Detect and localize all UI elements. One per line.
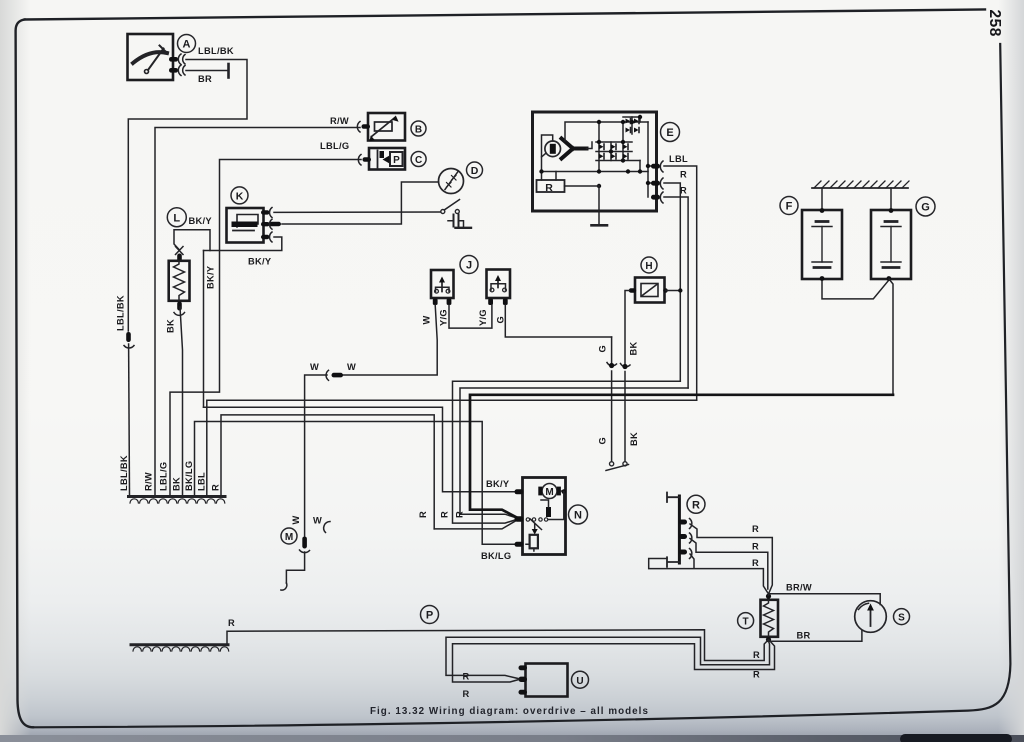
wire from D to K terminal 2 [282, 182, 439, 224]
kickdown switch contacts [606, 462, 629, 471]
wire R from E terminal 3 down to bus [664, 197, 688, 388]
svg-text:BK/Y: BK/Y [486, 479, 510, 489]
svg-text:LBL/BK: LBL/BK [198, 46, 234, 56]
terminals of H [629, 288, 668, 293]
wire BK from L to connector strip [180, 307, 183, 495]
terminals of E (LBL, R, R) [651, 161, 663, 203]
inline connector on D-K wire [268, 222, 281, 226]
ignition switch contacts below D [441, 200, 460, 214]
capacitor to ground at D [448, 215, 464, 228]
svg-text:G: G [496, 316, 506, 324]
circle label B [411, 121, 426, 136]
svg-text:BK/Y: BK/Y [248, 257, 272, 267]
wire battery F negative to battery G negative [820, 276, 892, 299]
svg-text:A: A [183, 39, 191, 51]
svg-text:D: D [471, 165, 479, 177]
circle label U [572, 671, 589, 688]
svg-text:P: P [393, 155, 400, 166]
svg-text:LBL/G: LBL/G [320, 141, 349, 151]
svg-text:Fig. 13.32 Wiring diagram: ove: Fig. 13.32 Wiring diagram: overdrive – a… [370, 706, 649, 717]
bold battery feed wire to N pin 2 [470, 395, 893, 518]
svg-text:BK: BK [172, 477, 182, 491]
circle label D [467, 162, 483, 178]
wire BK/LG from strip up and across to N [195, 422, 518, 545]
svg-text:K: K [236, 190, 244, 202]
motor M inside N [538, 484, 566, 520]
terminals of K [261, 208, 272, 243]
wire R pin3 to resistor T [649, 554, 769, 594]
circle label E [661, 123, 680, 142]
svg-text:N: N [574, 510, 582, 522]
svg-text:R/W: R/W [144, 472, 154, 491]
wire R/W from B down to connector strip [155, 128, 360, 496]
terminal pins of U [519, 665, 528, 694]
circle label H [641, 257, 657, 273]
node at T bottom [766, 637, 771, 642]
svg-text:R: R [228, 618, 235, 628]
svg-text:G: G [921, 202, 930, 214]
svg-text:H: H [645, 261, 652, 272]
wire R from strip bus into N pin 2 [434, 520, 517, 529]
wire R pin1 to resistor T [690, 524, 772, 594]
alternator E stator windings [562, 139, 587, 159]
terminal pins of N [515, 489, 524, 547]
wire battery F to ground hatch [820, 188, 825, 213]
inline connector on LBL/BK wire [124, 332, 134, 348]
ground strip bottom left [131, 645, 229, 651]
circle label K [231, 187, 248, 204]
wire BR from T to gauge S [769, 631, 862, 642]
svg-text:R: R [692, 499, 700, 511]
wire from K terminal 1 to ignition contacts [274, 211, 441, 213]
connector R (3-pin) [667, 493, 679, 567]
svg-text:W: W [422, 315, 432, 324]
svg-text:W: W [313, 516, 322, 526]
svg-text:U: U [576, 676, 583, 687]
svg-text:G: G [598, 345, 608, 353]
svg-text:M: M [545, 487, 553, 498]
svg-text:R: R [455, 511, 465, 518]
svg-text:BK/LG: BK/LG [481, 551, 511, 561]
svg-text:Y/G: Y/G [478, 309, 488, 326]
svg-text:W: W [291, 515, 301, 524]
svg-text:R: R [752, 524, 759, 534]
svg-text:BK: BK [166, 319, 176, 333]
wire G from J2 to drop [505, 305, 611, 337]
svg-text:R: R [211, 484, 221, 491]
battery G (box) [871, 210, 911, 279]
wire loop K terminal 3 to L resistor and BK/Y drop [174, 230, 282, 251]
inline connector on G wire [607, 363, 617, 369]
resistor T (box with zigzag) [761, 600, 779, 637]
relay K (box) [227, 208, 264, 243]
wire battery G to ground hatch [889, 188, 894, 213]
svg-text:R: R [752, 558, 759, 568]
wire R into U (loop 2) [453, 641, 775, 683]
svg-text:W: W [310, 362, 319, 372]
svg-text:LBL: LBL [669, 154, 688, 164]
wire Y/G linking J1 and J2 [449, 305, 492, 328]
solenoid valve unit U (box) [526, 664, 568, 697]
meter A (gauge box) [128, 34, 174, 80]
connector X on resistor L lead [176, 247, 184, 262]
wire LBL/BK from meter A down to connector strip [128, 60, 247, 332]
alternator E regulator box with R [537, 172, 600, 195]
oil pressure gauge S [855, 601, 887, 633]
circle label C [411, 152, 426, 167]
svg-text:P: P [426, 610, 433, 622]
svg-text:L: L [173, 212, 180, 224]
wire R into U (loop 1) [446, 637, 770, 678]
svg-text:LBL/G: LBL/G [159, 462, 169, 491]
relay J2 (box) [487, 270, 511, 299]
relay J1 (box) [431, 270, 454, 298]
fuse H (box) [635, 278, 665, 303]
svg-text:R: R [753, 650, 760, 660]
terminal of C [358, 155, 371, 166]
svg-text:R: R [752, 542, 759, 552]
svg-text:R: R [463, 672, 470, 682]
svg-text:M: M [285, 532, 293, 543]
dark scanner band at bottom [0, 735, 1024, 742]
circle label N [569, 505, 588, 524]
wire R upper bus (E terminal 2 branch) [453, 381, 681, 523]
svg-text:F: F [786, 201, 793, 213]
wire H to R drop wire [666, 288, 683, 292]
svg-text:E: E [666, 127, 673, 139]
battery F (box) [802, 210, 842, 279]
circle label F [780, 197, 798, 215]
svg-text:J: J [466, 260, 472, 272]
wire BK/Y (vertical drop to harness bus) [203, 251, 205, 408]
terminal of B [357, 122, 370, 133]
wire BR with terminator [186, 64, 229, 78]
ground below alternator E [592, 186, 608, 225]
overdrive unit N (box) [523, 478, 566, 555]
circle label S [894, 609, 910, 625]
svg-text:BR: BR [198, 74, 212, 84]
svg-text:R: R [680, 170, 687, 180]
resistance unit B (box with rheostat) [368, 113, 405, 142]
switch M assembly [281, 522, 330, 591]
svg-text:C: C [415, 155, 422, 166]
wire R pin2 to resistor T [690, 539, 768, 590]
circle label A [178, 35, 196, 53]
svg-text:T: T [743, 617, 749, 628]
svg-text:R/W: R/W [330, 116, 349, 126]
svg-text:G: G [598, 437, 608, 445]
wire R from strip to bus [221, 415, 434, 529]
wire BR/W from T to gauge S [769, 594, 881, 605]
circle label R [687, 495, 705, 513]
wire R from E terminal 2 down to bus [664, 183, 680, 381]
wire R middle bus (E terminal 3 branch) [460, 388, 688, 518]
svg-text:258: 258 [986, 10, 1003, 37]
svg-text:R: R [680, 186, 687, 196]
svg-text:BR/W: BR/W [786, 583, 812, 593]
inline connector on BK wire [621, 364, 631, 370]
ballast resistor L [169, 261, 190, 301]
svg-text:Y/G: Y/G [439, 309, 449, 326]
wire battery G down to bold feed [889, 279, 893, 395]
alternator E internal wiring [542, 117, 654, 197]
svg-text:BK/Y: BK/Y [206, 265, 216, 289]
terminal below L [174, 302, 185, 316]
long wire R (P circuit) from ground strip to T [227, 630, 768, 661]
svg-text:BK: BK [629, 432, 639, 446]
inline connector on W wire [326, 370, 343, 380]
solenoid inside N [526, 524, 538, 552]
ground hatch above batteries [812, 181, 909, 188]
svg-text:BK/Y: BK/Y [189, 216, 213, 226]
switch contacts inside N [526, 500, 551, 530]
svg-text:LBL: LBL [197, 472, 207, 491]
circle label L [167, 208, 186, 227]
node at T top [766, 594, 771, 599]
svg-text:LBL/BK: LBL/BK [116, 295, 126, 331]
wire BK/Y across bus into N pin 1 [204, 407, 518, 492]
circle label J [460, 256, 478, 274]
wire G from relay J2 down to kickdown switch [611, 337, 613, 462]
inhibitor switch C (box with P) [369, 148, 405, 170]
ignition switch D [439, 169, 464, 194]
svg-text:R: R [753, 670, 760, 680]
svg-text:BR: BR [797, 631, 811, 641]
svg-text:R: R [463, 689, 470, 699]
svg-text:R: R [418, 511, 428, 518]
svg-text:BK: BK [629, 341, 639, 355]
circle label M [281, 528, 297, 544]
pins of connector R [679, 519, 692, 559]
wire W from J1 down to connector and M switch [305, 305, 438, 536]
wire LBL/G from C left, down at x219.5, to link and strip [170, 160, 361, 496]
wire LBL from E terminal 1 down to bus [664, 166, 697, 400]
circle label T [738, 613, 754, 629]
terminal pins of J relays [433, 299, 508, 306]
alternator E rotor circle [545, 141, 561, 157]
ground symbol at D [456, 227, 472, 229]
meter A terminals [169, 54, 185, 76]
svg-text:W: W [347, 362, 356, 372]
alternator E (box) [533, 112, 657, 211]
wire BK from H down to kickdown switch [625, 291, 630, 462]
circle label G [916, 197, 935, 216]
svg-text:S: S [898, 613, 905, 624]
alternator E junction dots [539, 115, 650, 188]
svg-text:R: R [440, 511, 450, 518]
svg-text:R: R [545, 182, 553, 194]
wire LBL from strip across to alternator E [207, 400, 697, 495]
alternator E diodes [599, 119, 639, 160]
dark blob bottom right [900, 734, 1012, 742]
circle label P [421, 606, 439, 624]
svg-text:B: B [415, 124, 422, 135]
connector strip upper left (harness ground) [129, 497, 226, 504]
svg-text:BK/LG: BK/LG [184, 461, 194, 491]
svg-text:LBL/BK: LBL/BK [119, 455, 129, 491]
